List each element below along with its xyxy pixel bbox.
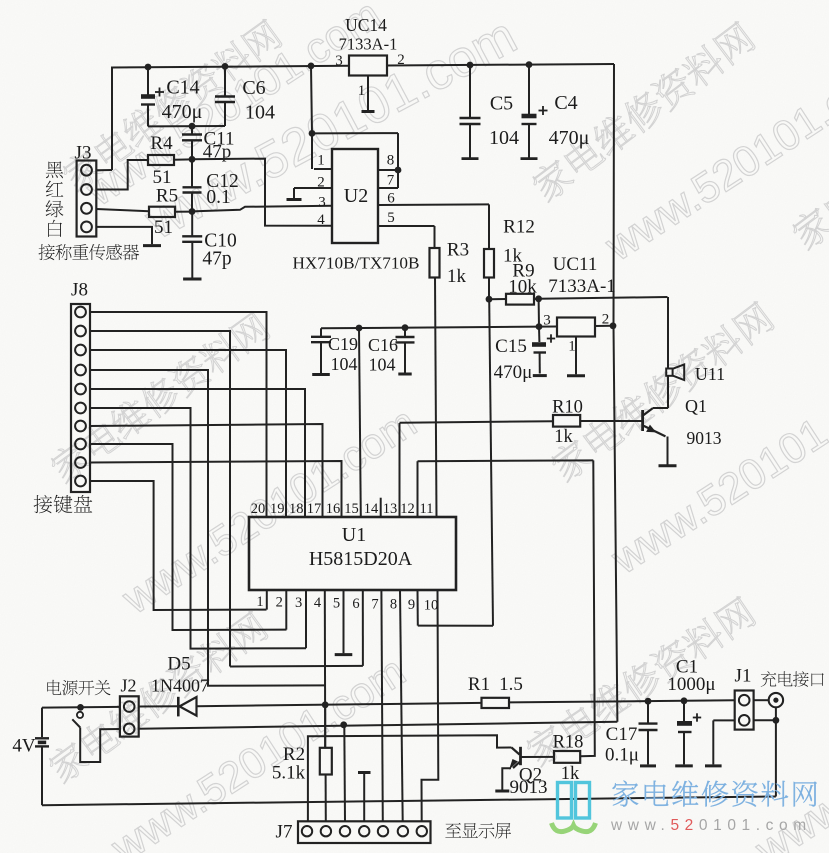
svg-text:D5: D5 [167,654,190,675]
svg-text:R3: R3 [447,240,469,261]
svg-text:4: 4 [314,595,322,611]
svg-text:470μ: 470μ [494,362,533,383]
svg-text:R1: R1 [468,674,490,695]
svg-text:6: 6 [352,596,359,612]
svg-text:R4: R4 [150,133,173,154]
svg-text:3: 3 [543,313,551,329]
svg-text:2: 2 [317,175,325,191]
svg-text:19: 19 [270,501,285,517]
svg-text:J2: J2 [120,676,136,696]
svg-text:3: 3 [318,195,326,211]
svg-text:R12: R12 [503,217,535,238]
svg-text:9013: 9013 [510,777,548,798]
svg-text:1k: 1k [554,427,573,447]
svg-text:C6: C6 [242,77,265,99]
svg-text:1N4007: 1N4007 [151,676,209,696]
svg-text:1.5: 1.5 [499,674,523,695]
svg-text:J8: J8 [71,280,88,301]
svg-text:C14: C14 [166,76,199,98]
svg-text:5: 5 [333,596,340,612]
svg-text:4: 4 [317,212,325,228]
svg-text:H5815D20A: H5815D20A [309,548,413,570]
svg-text:8: 8 [390,597,397,613]
svg-text:47p: 47p [202,249,231,270]
svg-text:U11: U11 [695,364,725,384]
svg-text:10: 10 [424,597,439,613]
svg-text:J3: J3 [75,143,92,164]
svg-text:UC11: UC11 [553,254,598,275]
svg-text:470μ: 470μ [549,127,590,149]
svg-text:16: 16 [326,501,341,517]
svg-text:3: 3 [335,53,343,69]
svg-text:10k: 10k [508,277,537,298]
svg-text:U2: U2 [344,185,368,207]
svg-text:C16: C16 [368,335,398,355]
svg-text:1k: 1k [447,266,467,287]
svg-text:1: 1 [256,594,263,610]
svg-text:6: 6 [387,191,395,207]
svg-text:7133A-1: 7133A-1 [548,276,616,297]
svg-text:104: 104 [489,127,519,149]
svg-text:20: 20 [251,501,266,517]
svg-text:104: 104 [369,355,396,375]
svg-text:11: 11 [420,501,434,517]
svg-text:3: 3 [295,595,302,611]
svg-text:J7: J7 [276,822,293,843]
svg-text:8: 8 [387,153,395,169]
svg-text:18: 18 [289,501,304,517]
svg-text:9: 9 [408,597,415,613]
svg-text:2: 2 [397,52,405,68]
svg-text:7: 7 [371,596,378,612]
svg-text:0.1μ: 0.1μ [605,745,639,766]
svg-text:J1: J1 [735,666,752,687]
svg-text:5.1k: 5.1k [272,763,306,784]
svg-text:14: 14 [364,501,379,517]
svg-text:7133A-1: 7133A-1 [339,35,398,54]
svg-text:9013: 9013 [687,428,722,448]
svg-text:5: 5 [387,210,395,226]
svg-text:12: 12 [400,501,415,517]
svg-text:www.520101.com: www.520101.com [610,817,812,834]
svg-text:C5: C5 [490,92,513,114]
svg-text:R5: R5 [156,186,178,207]
svg-text:R18: R18 [553,732,584,752]
svg-text:7: 7 [387,173,395,189]
svg-text:104: 104 [245,101,275,123]
svg-text:C19: C19 [328,334,358,354]
svg-text:1: 1 [358,83,366,99]
svg-text:Q1: Q1 [685,396,707,416]
svg-text:C17: C17 [606,724,638,745]
svg-text:13: 13 [383,501,398,517]
svg-text:0.1: 0.1 [206,187,230,208]
svg-text:1: 1 [568,339,576,355]
svg-text:C15: C15 [495,336,527,357]
svg-text:104: 104 [331,354,358,374]
svg-text:17: 17 [307,501,322,517]
svg-text:2: 2 [276,594,283,610]
svg-text:15: 15 [344,501,359,517]
svg-text:HX710B/TX710B: HX710B/TX710B [292,253,419,272]
svg-text:U1: U1 [342,524,366,546]
svg-text:470μ: 470μ [162,101,203,123]
svg-text:C4: C4 [554,92,577,114]
svg-text:R10: R10 [552,397,583,417]
svg-text:51: 51 [154,217,173,238]
svg-text:1: 1 [317,153,325,169]
svg-text:2: 2 [602,312,610,328]
svg-text:1000μ: 1000μ [667,674,715,695]
svg-text:4V: 4V [12,736,36,757]
svg-text:UC14: UC14 [345,15,387,35]
